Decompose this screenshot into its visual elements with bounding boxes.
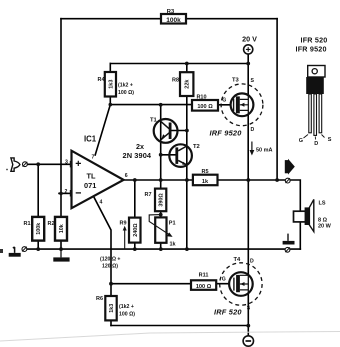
svg-text:1k: 1k [202,179,209,185]
svg-text:G: G [299,138,303,144]
current arrow 50mA [250,142,273,156]
svg-text:100 Ω: 100 Ω [196,284,212,290]
svg-text:2N 3904: 2N 3904 [123,151,152,160]
TO-220 package [296,36,332,148]
wire speaker bottom [299,222,301,249]
mosfet T3 [210,78,263,138]
wire R4 branch [109,64,111,105]
mosfet T4 [214,257,262,317]
resistor R7 [145,189,167,212]
resistor R3 [161,9,186,24]
resistor R4 [98,72,135,97]
wire bottom rail [111,325,248,327]
wire R8 to T1 base to ground rail [186,64,188,250]
resistor R8 [172,72,193,96]
svg-text:R6: R6 [96,296,103,302]
wire R2 vertical [60,193,62,249]
wire T2 base [161,154,176,156]
label (120+120) [100,257,120,270]
svg-text:R11: R11 [199,273,209,279]
ground terminal 1 (input) [9,247,27,257]
svg-text:LS: LS [319,201,326,207]
wire gate T3 [218,104,234,106]
svg-text:(1k2 +: (1k2 + [118,83,133,89]
svg-text:071: 071 [84,181,96,190]
wire left feedback vertical [60,19,62,194]
resistor R11 [191,273,216,290]
svg-text:T3: T3 [232,78,240,84]
supply +20V terminal [242,35,257,55]
svg-text:100k: 100k [36,223,42,235]
svg-text:IFR 520: IFR 520 [301,36,328,45]
resistor R1 [24,217,45,241]
svg-text:S: S [328,137,332,143]
svg-text:120 Ω): 120 Ω) [102,264,118,270]
resistor R9 [120,218,141,250]
svg-text:50 mA: 50 mA [256,148,273,154]
svg-text:240Ω: 240Ω [133,223,139,237]
svg-text:IFR 9520: IFR 9520 [296,45,327,54]
svg-text:22k: 22k [185,79,191,89]
svg-text:1k3: 1k3 [108,80,114,89]
wire right feedback vertical [276,19,278,181]
svg-text:P1: P1 [169,221,176,227]
svg-text:D: D [250,259,254,265]
op-amp IC1 [65,135,128,209]
wire ground rail [27,248,301,250]
wire pin4 diagonal [94,196,112,325]
svg-text:100 Ω): 100 Ω) [118,90,134,96]
wire T1 T2 left vertical [160,105,162,249]
svg-text:R2: R2 [48,221,55,227]
resistor R10 [192,95,218,111]
svg-text:G: G [222,277,226,283]
svg-text:4: 4 [100,200,103,206]
svg-text:R9: R9 [120,221,127,227]
svg-text:G: G [222,98,226,104]
svg-text:100k: 100k [166,17,181,24]
label 2x 2N3904 [123,142,152,160]
transistor T1 [150,118,178,143]
wire pin3 input [27,163,71,165]
wire main vertical T3 [247,54,249,180]
svg-text:TL: TL [87,172,97,181]
svg-text:100 Ω: 100 Ω [197,104,213,110]
svg-text:20 V: 20 V [242,35,257,44]
output connector arrow [285,159,295,183]
svg-text:3: 3 [65,160,68,166]
svg-text:S: S [247,306,251,312]
wire node line N1 [110,104,192,106]
svg-text:7: 7 [92,154,95,160]
transistor T2 [169,144,199,167]
svg-text:S: S [251,78,255,84]
svg-text:10k: 10k [59,224,65,233]
svg-text:390Ω: 390Ω [159,193,165,207]
wire output line [124,180,301,211]
resistor R6 [96,296,135,320]
svg-text:R4: R4 [98,77,106,83]
svg-text:R1: R1 [24,221,31,227]
svg-text:R8: R8 [172,78,179,84]
svg-text:R10: R10 [196,95,206,101]
svg-text:100 Ω): 100 Ω) [119,312,135,318]
wire main vertical T4 [247,180,249,336]
speaker LS [294,199,332,231]
svg-text:6: 6 [125,173,128,179]
svg-text:R3: R3 [167,9,175,15]
svg-text:T1: T1 [150,118,158,124]
svg-text:1k: 1k [170,242,177,248]
svg-text:T4: T4 [234,257,242,263]
wire R1 vertical [37,164,39,249]
wire supply rail [110,63,248,65]
svg-text:(1k2 +: (1k2 + [119,304,134,310]
wire gate T4 line [111,283,234,285]
input connector [11,158,27,171]
svg-text:T2: T2 [193,144,200,150]
scan artifact bottom streak [0,332,340,342]
svg-text:2: 2 [65,189,68,195]
wire pin2 stub [59,192,72,194]
resistor R2 [48,217,68,241]
scan speck left edge [0,249,3,253]
svg-text:D: D [251,127,255,133]
ground below R2 [53,249,69,262]
svg-text:R5: R5 [201,169,208,175]
svg-text:1k3: 1k3 [109,304,115,313]
ground right [283,234,295,253]
svg-text:IRF 9520: IRF 9520 [210,129,243,138]
svg-text:IRF 520: IRF 520 [214,308,242,317]
svg-text:2x: 2x [136,142,144,151]
potentiometer P1 [149,215,176,248]
wire R9 vertical [134,180,136,249]
svg-text:D: D [314,141,318,147]
svg-text:(120 Ω +: (120 Ω + [100,257,120,263]
wire top feedback [61,18,277,20]
svg-text:R7: R7 [145,192,152,198]
resistor R5 [193,169,218,185]
svg-text:20 W: 20 W [318,224,332,230]
wire pin7 diagonal [95,105,110,155]
svg-text:IC1: IC1 [84,135,97,144]
minus supply terminal [243,336,253,346]
wire T1 base [171,130,187,132]
